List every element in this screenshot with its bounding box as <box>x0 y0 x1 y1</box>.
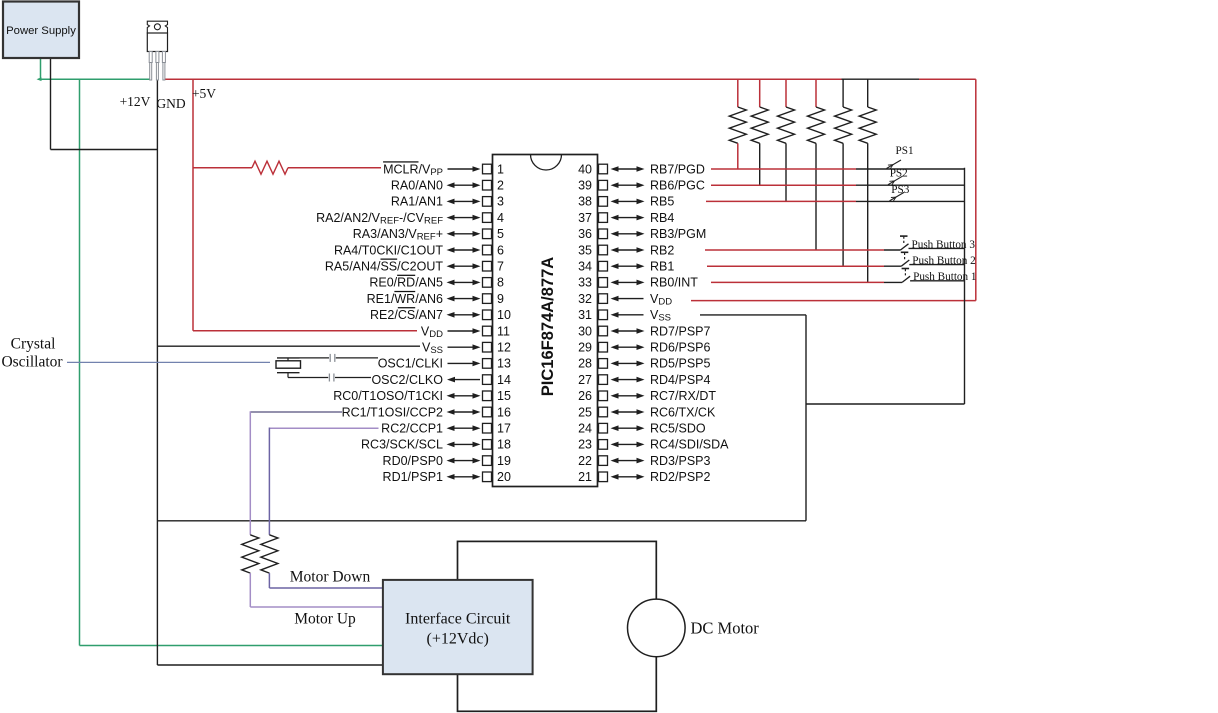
svg-text:1: 1 <box>497 162 504 176</box>
wire motor loop <box>458 541 657 711</box>
U1 pin 10 (RE2/CS/AN7) <box>370 308 511 322</box>
label Motor Up <box>294 611 356 628</box>
capacitor C1 (series, OSC1) <box>330 354 335 362</box>
power supply box <box>3 2 79 59</box>
wire top rail black segment <box>842 78 920 80</box>
U1 pin 1 (MCLR/VPP) <box>383 162 504 178</box>
U1 pin 31 (VSS) <box>578 308 671 324</box>
U1 pin 22 (RD3/PSP3) <box>578 454 710 468</box>
svg-text:2: 2 <box>497 179 504 193</box>
svg-text:33: 33 <box>578 276 592 290</box>
svg-text:Motor Down: Motor Down <box>290 569 371 586</box>
label Push Button 3 <box>912 239 976 251</box>
wire RB5 to switch PS3 (red segment) <box>706 200 856 202</box>
svg-text:30: 30 <box>578 324 592 338</box>
svg-text:15: 15 <box>497 389 511 403</box>
capacitor C2 (series, OSC2) <box>329 374 334 382</box>
U1 pin 33 (RB0/INT) <box>578 276 698 290</box>
svg-text:36: 36 <box>578 227 592 241</box>
wire GND vertical from regulator <box>156 81 158 666</box>
svg-text:RA5/AN4/SS/C2OUT: RA5/AN4/SS/C2OUT <box>325 260 443 274</box>
U1 pin 28 (RD5/PSP5) <box>578 357 710 371</box>
U1 pin 35 (RB2) <box>578 243 674 257</box>
svg-text:Push Button 3: Push Button 3 <box>912 239 976 251</box>
svg-text:RC3/SCK/SCL: RC3/SCK/SCL <box>361 438 443 452</box>
label Motor Down <box>290 569 371 586</box>
resistor R5 pull-up <box>835 79 852 266</box>
wire Motor Up (purple) to interface circuit <box>250 573 383 607</box>
svg-text:RD3/PSP3: RD3/PSP3 <box>650 454 710 468</box>
svg-text:Oscillator: Oscillator <box>1 354 63 371</box>
wire crystal to OSC2 (pin 14) <box>288 377 371 379</box>
U1 pin 2 (RA0/AN0) <box>391 179 504 193</box>
switch PS1 <box>856 160 965 169</box>
svg-text:8: 8 <box>497 276 504 290</box>
svg-text:14: 14 <box>497 373 511 387</box>
U1 pin 30 (RD7/PSP7) <box>578 324 710 338</box>
svg-text:22: 22 <box>578 454 592 468</box>
svg-text:RA1/AN1: RA1/AN1 <box>391 195 443 209</box>
svg-text:+5V: +5V <box>192 86 216 101</box>
push button PB3 <box>884 236 965 250</box>
resistor R2 pull-up <box>751 79 768 185</box>
svg-text:9: 9 <box>497 292 504 306</box>
U1 pin 16 (RC1/T1OSI/CCP2) <box>342 405 511 419</box>
svg-text:18: 18 <box>497 438 511 452</box>
svg-text:RE1/WR/AN6: RE1/WR/AN6 <box>367 292 443 306</box>
svg-text:PS3: PS3 <box>891 184 909 196</box>
svg-text:RD4/PSP4: RD4/PSP4 <box>650 373 710 387</box>
svg-text:6: 6 <box>497 243 504 257</box>
svg-text:GND: GND <box>156 96 185 111</box>
wire Motor Down (dark purple) to interface circuit <box>269 573 383 588</box>
svg-text:RB7/PGD: RB7/PGD <box>650 162 705 176</box>
svg-text:31: 31 <box>578 308 592 322</box>
wire +5V right vertical (red) to pin 32 Vdd <box>975 79 977 300</box>
svg-text:7: 7 <box>497 260 504 274</box>
U1 pin 37 (RB4) <box>578 211 674 225</box>
svg-text:RE2/CS/AN7: RE2/CS/AN7 <box>370 308 443 322</box>
svg-text:Interface Circuit: Interface Circuit <box>405 611 511 628</box>
svg-text:28: 28 <box>578 357 592 371</box>
U1 pin 40 (RB7/PGD) <box>578 162 705 176</box>
U1 pin 39 (RB6/PGC) <box>578 179 705 193</box>
svg-text:40: 40 <box>578 162 592 176</box>
resistor R4 pull-up <box>808 79 825 250</box>
label Crystal Oscillator <box>1 336 63 371</box>
switch PS2 <box>856 176 965 185</box>
crystal X1 <box>276 358 301 378</box>
resistor R6 pull-up <box>859 79 876 282</box>
U1 pin 34 (RB1) <box>578 260 674 274</box>
svg-text:RB5: RB5 <box>650 195 674 209</box>
U1 pin 24 (RC5/SDO) <box>578 422 706 436</box>
U1 pin 38 (RB5) <box>578 195 674 209</box>
svg-text:RD6/PSP6: RD6/PSP6 <box>650 341 710 355</box>
label GND <box>156 96 185 111</box>
push button PB2 <box>884 252 965 266</box>
U1 pin 13 (OSC1/CLKI) <box>378 357 511 371</box>
wire callout (blue) to crystal <box>67 361 270 363</box>
interface circuit box <box>383 580 533 674</box>
wire crystal to OSC1 (pin 13) <box>300 357 379 359</box>
wire power supply negative (black) <box>51 58 158 150</box>
svg-text:19: 19 <box>497 454 511 468</box>
U1 pin 19 (RD0/PSP0) <box>383 454 511 468</box>
svg-text:38: 38 <box>578 195 592 209</box>
svg-text:(+12Vdc): (+12Vdc) <box>427 631 489 648</box>
svg-text:34: 34 <box>578 260 592 274</box>
svg-text:13: 13 <box>497 357 511 371</box>
wire RC1/CCP2 to motor-up resistor (purple) <box>250 411 342 535</box>
label PS1 <box>896 145 914 157</box>
svg-text:16: 16 <box>497 405 511 419</box>
U1 pin 11 (VDD) <box>421 324 510 340</box>
svg-text:32: 32 <box>578 292 592 306</box>
svg-text:11: 11 <box>497 324 510 338</box>
wire RB7 to switch PS1 (red segment) <box>711 168 856 170</box>
svg-text:25: 25 <box>578 405 592 419</box>
U1 pin 20 (RD1/PSP1) <box>383 470 511 484</box>
label Push Button 2 <box>912 255 975 267</box>
label DC Motor <box>691 619 760 638</box>
U1 pin 36 (RB3/PGM) <box>578 227 706 241</box>
U1 pin 5 (RA3/AN3/VREF+) <box>353 227 504 243</box>
U1 pin 27 (RD4/PSP4) <box>578 373 710 387</box>
U1 pin 25 (RC6/TX/CK) <box>578 405 716 419</box>
label Push Button 1 <box>913 271 976 283</box>
svg-text:RA4/T0CKI/C1OUT: RA4/T0CKI/C1OUT <box>334 243 443 257</box>
U1 pin 14 (OSC2/CLKO) <box>371 373 511 387</box>
svg-text:24: 24 <box>578 422 592 436</box>
svg-text:4: 4 <box>497 211 504 225</box>
wire RB1 to push button (red segment) <box>707 265 884 267</box>
label +12V <box>120 94 151 109</box>
svg-text:17: 17 <box>497 422 511 436</box>
wire Vdd pin 32 (red) <box>691 300 976 302</box>
svg-text:RB4: RB4 <box>650 211 674 225</box>
svg-text:10: 10 <box>497 308 511 322</box>
resistor R1 pull-up <box>729 79 746 169</box>
svg-text:21: 21 <box>578 470 592 484</box>
svg-text:RC4/SDI/SDA: RC4/SDI/SDA <box>650 438 729 452</box>
svg-text:PS2: PS2 <box>890 168 908 180</box>
wire Vdd pin 11 (red) <box>193 330 417 332</box>
svg-text:3: 3 <box>497 195 504 209</box>
svg-text:RB1: RB1 <box>650 260 674 274</box>
svg-text:RD7/PSP7: RD7/PSP7 <box>650 324 710 338</box>
U1 pin 6 (RA4/T0CKI/C1OUT) <box>334 243 504 257</box>
svg-text:Push Button 1: Push Button 1 <box>913 271 976 283</box>
svg-text:20: 20 <box>497 470 511 484</box>
wire GND bottom to interface circuit <box>157 664 383 666</box>
U1 pin 21 (RD2/PSP2) <box>578 470 710 484</box>
svg-text:27: 27 <box>578 373 592 387</box>
resistor R9 (motor down) <box>261 535 278 573</box>
wire +5V rail (red) from regulator output <box>164 78 842 80</box>
svg-text:RB3/PGM: RB3/PGM <box>650 227 706 241</box>
resistor R7 MCLR pull-up <box>252 161 288 174</box>
svg-text:39: 39 <box>578 179 592 193</box>
svg-text:RB6/PGC: RB6/PGC <box>650 179 705 193</box>
resistor R3 pull-up <box>778 79 795 201</box>
wire GND to pin 12 Vss <box>157 345 420 347</box>
svg-text:5: 5 <box>497 227 504 241</box>
svg-text:RD1/PSP1: RD1/PSP1 <box>383 470 443 484</box>
label PS2 <box>890 168 908 180</box>
svg-text:OSC1/CLKI: OSC1/CLKI <box>378 357 443 371</box>
svg-text:Motor Up: Motor Up <box>294 611 356 628</box>
svg-text:OSC2/CLKO: OSC2/CLKO <box>371 373 443 387</box>
svg-text:12: 12 <box>497 341 511 355</box>
wire RB2 to push button (red segment) <box>705 249 884 251</box>
U1 pin 7 (RA5/AN4/SS/C2OUT) <box>325 260 504 274</box>
svg-text:PS1: PS1 <box>896 145 914 157</box>
label +5V <box>192 86 216 101</box>
U1 pin 4 (RA2/AN2/VREF-/CVREF) <box>316 211 504 227</box>
wire +12V (green) down to interface circuit <box>80 79 383 645</box>
wire +12V (green) power supply to regulator input <box>37 58 151 81</box>
switch PS3 <box>856 192 965 201</box>
svg-text:RC0/T1OSO/T1CKI: RC0/T1OSO/T1CKI <box>333 389 443 403</box>
U1 pin 32 (VDD) <box>578 292 672 308</box>
wire RB6 to switch PS2 (red segment) <box>711 184 856 186</box>
svg-text:26: 26 <box>578 389 592 403</box>
wire +5V left vertical (red) <box>192 79 194 331</box>
svg-text:37: 37 <box>578 211 592 225</box>
wire RC2/CCP1 to motor-down resistor (purple) <box>269 428 378 535</box>
label PS3 <box>891 184 909 196</box>
wire Vss pin 31 (black) <box>700 315 806 521</box>
U1 pin 9 (RE1/WR/AN6) <box>367 292 504 306</box>
U1 pin 15 (RC0/T1OSO/T1CKI) <box>333 389 511 403</box>
U1 pin 17 (RC2/CCP1) <box>381 422 511 436</box>
svg-text:Power Supply: Power Supply <box>6 25 76 37</box>
wire MCLR (red) with series resistor <box>193 167 381 169</box>
U1 pin 12 (VSS) <box>422 341 511 357</box>
U1 pin 3 (RA1/AN1) <box>391 195 504 209</box>
svg-text:RB2: RB2 <box>650 243 674 257</box>
push button PB1 <box>884 269 965 283</box>
motor M1 (DC Motor) <box>628 599 686 657</box>
U1 pin 29 (RD6/PSP6) <box>578 341 710 355</box>
IC U1 PIC16F874A/877A <box>493 155 598 487</box>
resistor R8 (motor up) <box>242 535 259 573</box>
U1 pin 26 (RC7/RX/DT) <box>578 389 716 403</box>
svg-text:RC6/TX/CK: RC6/TX/CK <box>650 405 716 419</box>
svg-text:RD2/PSP2: RD2/PSP2 <box>650 470 710 484</box>
svg-text:RD5/PSP5: RD5/PSP5 <box>650 357 710 371</box>
svg-text:RC5/SDO: RC5/SDO <box>650 422 706 436</box>
wire GND horizontal rail <box>157 520 806 522</box>
wire top rail red right segment <box>919 78 976 80</box>
svg-text:+12V: +12V <box>120 94 151 109</box>
svg-text:Push Button 2: Push Button 2 <box>912 255 975 267</box>
wire RB0 to push button (red segment) <box>711 281 884 283</box>
svg-text:RE0/RD/AN5: RE0/RD/AN5 <box>369 276 443 290</box>
svg-text:PIC16F874A/877A: PIC16F874A/877A <box>539 257 557 396</box>
svg-text:35: 35 <box>578 243 592 257</box>
svg-text:Crystal: Crystal <box>11 336 56 353</box>
svg-text:RA0/AN0: RA0/AN0 <box>391 179 443 193</box>
U1 pin 23 (RC4/SDI/SDA) <box>578 438 729 452</box>
svg-text:RB0/INT: RB0/INT <box>650 276 698 290</box>
svg-text:RC1/T1OSI/CCP2: RC1/T1OSI/CCP2 <box>342 405 443 419</box>
U1 pin 18 (RC3/SCK/SCL) <box>361 438 511 452</box>
svg-text:DC Motor: DC Motor <box>691 619 760 638</box>
svg-text:RC7/RX/DT: RC7/RX/DT <box>650 389 716 403</box>
svg-text:RD0/PSP0: RD0/PSP0 <box>383 454 443 468</box>
svg-text:29: 29 <box>578 341 592 355</box>
U1 pin 8 (RE0/RD/AN5) <box>369 276 504 290</box>
svg-text:RC2/CCP1: RC2/CCP1 <box>381 422 443 436</box>
svg-text:23: 23 <box>578 438 592 452</box>
wire switch common return <box>806 168 965 404</box>
voltage regulator U2 (TO-220) <box>147 21 167 80</box>
